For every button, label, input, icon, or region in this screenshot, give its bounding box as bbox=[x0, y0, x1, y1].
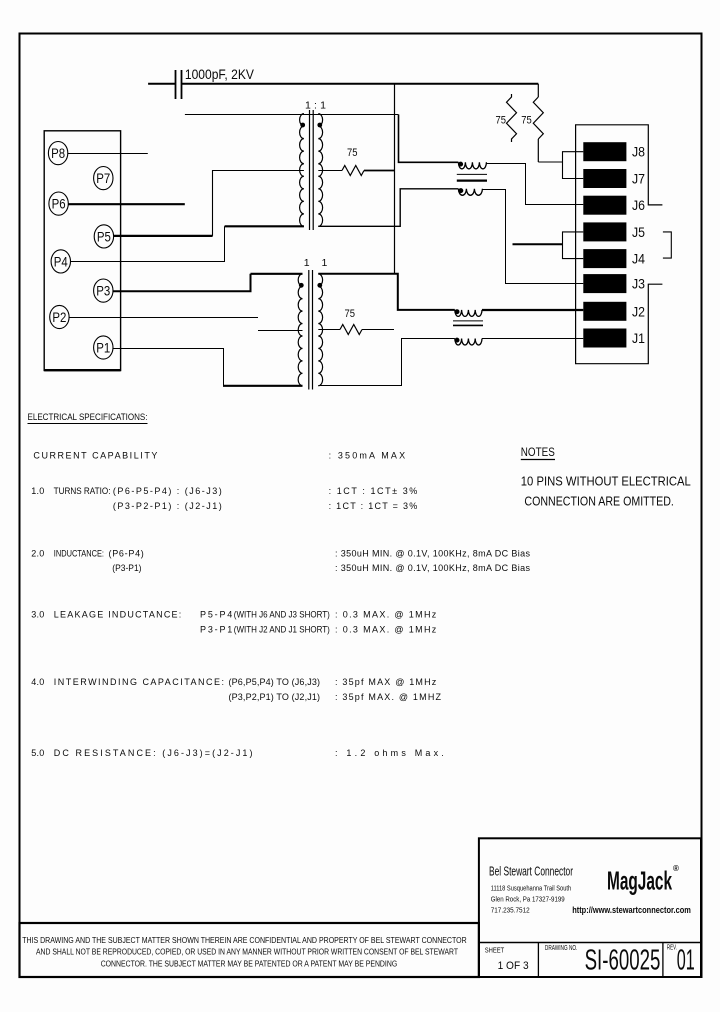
pin P2 bbox=[50, 305, 69, 328]
svg-text:P3-P1: P3-P1 bbox=[200, 625, 232, 635]
svg-text:P2: P2 bbox=[52, 309, 66, 325]
wire L1 bottom out to J3 bbox=[482, 190, 583, 284]
svg-text:THIS DRAWING AND THE SUBJECT M: THIS DRAWING AND THE SUBJECT MATTER SHOW… bbox=[22, 936, 467, 945]
svg-text:: 1CT : 1CT = 3%: : 1CT : 1CT = 3% bbox=[329, 501, 418, 511]
svg-text:TURNS RATIO:: TURNS RATIO: bbox=[54, 486, 111, 496]
svg-text:1.0: 1.0 bbox=[31, 486, 44, 496]
title block divider sheet/drawing bbox=[537, 943, 539, 978]
wire T1 secondary bottom to choke L1 bottom bbox=[318, 189, 458, 227]
svg-text:http://www.stewartconnector.co: http://www.stewartconnector.com bbox=[572, 905, 691, 915]
svg-text:CONNECTION ARE OMITTED.: CONNECTION ARE OMITTED. bbox=[524, 495, 674, 509]
wire T2 primary top bbox=[251, 273, 303, 275]
pin P3 bbox=[94, 279, 113, 302]
svg-text:CONNECTOR. THE SUBJECT MATTER: CONNECTOR. THE SUBJECT MATTER MAY BE PAT… bbox=[101, 959, 398, 968]
svg-text:2.0: 2.0 bbox=[31, 549, 44, 559]
resistor R4 75 (right shunt) bbox=[521, 84, 543, 162]
pin J2 bbox=[583, 302, 645, 321]
wire P4 to T1 bottom bbox=[71, 226, 225, 261]
svg-text:Glen Rock, Pa 17327-9199: Glen Rock, Pa 17327-9199 bbox=[491, 894, 565, 903]
svg-text:J2: J2 bbox=[632, 303, 645, 319]
pin P1 bbox=[94, 336, 113, 359]
wire transformer T1 top bbox=[185, 114, 399, 116]
svg-text:SI-60025: SI-60025 bbox=[585, 945, 661, 977]
svg-text:Bel Stewart Connector: Bel Stewart Connector bbox=[489, 865, 573, 879]
pin J1 bbox=[583, 329, 645, 348]
svg-text:INTERWINDING CAPACITANCE:: INTERWINDING CAPACITANCE: bbox=[54, 677, 224, 687]
svg-text:SHEET: SHEET bbox=[485, 948, 505, 955]
resistor R1 75 bbox=[318, 147, 394, 176]
svg-text:1 OF 3: 1 OF 3 bbox=[498, 960, 529, 972]
wire P1 to T2 bottom bbox=[113, 349, 224, 386]
svg-text:P7: P7 bbox=[96, 170, 110, 186]
wire L2 top out to J2 bbox=[482, 309, 583, 311]
svg-text:1 : 1: 1 : 1 bbox=[305, 100, 326, 112]
svg-text:DRAWING NO.: DRAWING NO. bbox=[545, 945, 578, 952]
svg-text:P4: P4 bbox=[54, 253, 68, 269]
common mode choke L2 bbox=[453, 309, 483, 345]
pin J4 bbox=[583, 249, 645, 268]
svg-text:(WITH J6 AND J3 SHORT): (WITH J6 AND J3 SHORT) bbox=[234, 610, 330, 620]
svg-text:AND SHALL NOT BE REPRODUCED, C: AND SHALL NOT BE REPRODUCED, COPIED, OR … bbox=[36, 948, 458, 957]
svg-text:: 350uH MIN. @ 0.1V, 100KHz, 8: : 350uH MIN. @ 0.1V, 100KHz, 8mA DC Bias bbox=[335, 549, 531, 559]
svg-text:P6: P6 bbox=[52, 196, 66, 212]
svg-text:(P6-P4): (P6-P4) bbox=[109, 549, 144, 559]
svg-text:717.235.7512: 717.235.7512 bbox=[491, 905, 530, 914]
svg-text:J4: J4 bbox=[632, 251, 645, 267]
svg-text:J1: J1 bbox=[632, 330, 645, 346]
pin J6 bbox=[583, 196, 645, 215]
svg-text:5.0: 5.0 bbox=[31, 748, 44, 758]
pin J8 bbox=[583, 142, 645, 161]
svg-text:NOTES: NOTES bbox=[521, 445, 555, 459]
svg-text:P5: P5 bbox=[97, 228, 111, 244]
wire T2 secondary bottom to choke L2 bottom bbox=[318, 339, 455, 386]
wire P5 to T1 mid tap bbox=[114, 235, 213, 237]
wire T1 primary bottom bbox=[225, 225, 304, 227]
svg-text:75: 75 bbox=[345, 308, 356, 320]
title block row divider bbox=[479, 942, 701, 944]
svg-text:(P3,P2,P1) TO (J2,J1): (P3,P2,P1) TO (J2,J1) bbox=[229, 692, 321, 702]
svg-text:1: 1 bbox=[322, 257, 328, 269]
svg-text:(P6,P5,P4) TO (J6,J3): (P6,P5,P4) TO (J6,J3) bbox=[229, 677, 321, 687]
pin J3 bbox=[583, 274, 645, 293]
svg-text:1: 1 bbox=[304, 257, 310, 269]
pin P4 bbox=[51, 250, 70, 273]
svg-text:P3: P3 bbox=[96, 283, 110, 299]
wire L2 bottom out to J1 bbox=[482, 338, 583, 340]
bracket J5-J4 short right bbox=[663, 232, 671, 258]
capacitor C1 1000pF 2KV bbox=[148, 67, 254, 99]
svg-text:J3: J3 bbox=[632, 276, 645, 292]
wire T2 secondary top to choke L2 bbox=[318, 274, 455, 310]
wire R4 to J8/J7 bracket bbox=[538, 161, 562, 163]
wire vertical bus bbox=[394, 84, 396, 274]
svg-text:MagJack: MagJack bbox=[607, 866, 672, 896]
title block box bbox=[479, 838, 701, 977]
svg-text:J7: J7 bbox=[632, 171, 645, 187]
svg-text:(WITH J2 AND J1 SHORT): (WITH J2 AND J1 SHORT) bbox=[234, 625, 330, 635]
wire T2 primary bottom bbox=[223, 385, 303, 387]
svg-text:ELECTRICAL SPECIFICATIONS:: ELECTRICAL SPECIFICATIONS: bbox=[28, 412, 148, 422]
pin J7 bbox=[583, 169, 645, 188]
svg-text:LEAKAGE INDUCTANCE:: LEAKAGE INDUCTANCE: bbox=[54, 610, 182, 620]
wire drop to choke L1 top bbox=[399, 115, 459, 163]
resistor R2 75 bbox=[318, 308, 394, 335]
svg-text:4.0: 4.0 bbox=[31, 677, 44, 687]
bracket J5-J4 short left bbox=[563, 232, 584, 259]
svg-text:J6: J6 bbox=[632, 197, 645, 213]
svg-text:: 35pf MAX @ 1MHz: : 35pf MAX @ 1MHz bbox=[335, 677, 437, 687]
svg-text:INDUCTANCE:: INDUCTANCE: bbox=[54, 549, 104, 559]
bracket J8-J7 short bbox=[563, 152, 584, 179]
svg-text:11118 Susquehanna Trail South: 11118 Susquehanna Trail South bbox=[491, 883, 572, 892]
connector P housing bbox=[44, 131, 120, 371]
pin P8 bbox=[48, 142, 67, 165]
svg-text:: 350uH MIN. @ 0.1V, 100KHz, 8: : 350uH MIN. @ 0.1V, 100KHz, 8mA DC Bias bbox=[335, 563, 531, 573]
svg-text:REV.: REV. bbox=[667, 945, 677, 952]
svg-text:75: 75 bbox=[347, 147, 358, 159]
svg-text:3.0: 3.0 bbox=[31, 610, 44, 620]
svg-text:P5-P4: P5-P4 bbox=[200, 610, 232, 620]
wire P8 bbox=[68, 153, 148, 155]
svg-text:10 PINS WITHOUT ELECTRICAL: 10 PINS WITHOUT ELECTRICAL bbox=[521, 475, 691, 489]
wire P3 to T2 top bbox=[113, 274, 251, 291]
pin P6 bbox=[49, 192, 68, 215]
title block divider drawing/rev bbox=[662, 943, 664, 978]
wire L1 top out to J6 bbox=[486, 164, 583, 205]
svg-text:75: 75 bbox=[521, 115, 532, 127]
svg-text:01: 01 bbox=[677, 945, 695, 977]
pin P5 bbox=[94, 225, 113, 248]
wire P2 bbox=[69, 317, 258, 319]
svg-text:P1: P1 bbox=[96, 340, 110, 356]
svg-text:: 0.3 MAX. @ 1MHz: : 0.3 MAX. @ 1MHz bbox=[335, 610, 437, 620]
wire P6 bbox=[68, 203, 185, 205]
pin J5 bbox=[583, 222, 645, 241]
svg-text:: 350mA MAX: : 350mA MAX bbox=[329, 450, 406, 460]
svg-text:: 35pf MAX. @ 1MHZ: : 35pf MAX. @ 1MHZ bbox=[335, 692, 442, 702]
transformer T1 bbox=[300, 100, 327, 231]
wire top net from capacitor bbox=[182, 83, 539, 85]
svg-text:75: 75 bbox=[496, 115, 507, 127]
svg-text:P8: P8 bbox=[51, 145, 65, 161]
svg-text:1000pF, 2KV: 1000pF, 2KV bbox=[185, 67, 254, 82]
pin P7 bbox=[94, 167, 113, 190]
svg-text:J5: J5 bbox=[632, 224, 645, 240]
svg-text:J8: J8 bbox=[632, 144, 645, 160]
resistor R3 75 (left shunt) bbox=[496, 94, 517, 142]
svg-text:®: ® bbox=[673, 864, 679, 873]
wire feed J5-J4 bbox=[513, 243, 563, 245]
svg-text:: 0.3 MAX. @ 1MHz: : 0.3 MAX. @ 1MHz bbox=[335, 625, 437, 635]
svg-text:(P3-P1): (P3-P1) bbox=[112, 563, 141, 573]
transformer T2 bbox=[298, 257, 327, 390]
connector J housing bbox=[576, 125, 663, 364]
wire T2 primary mid tap bbox=[258, 330, 303, 332]
common mode choke L1 bbox=[457, 162, 487, 196]
footer disclaimer box bbox=[20, 923, 479, 977]
